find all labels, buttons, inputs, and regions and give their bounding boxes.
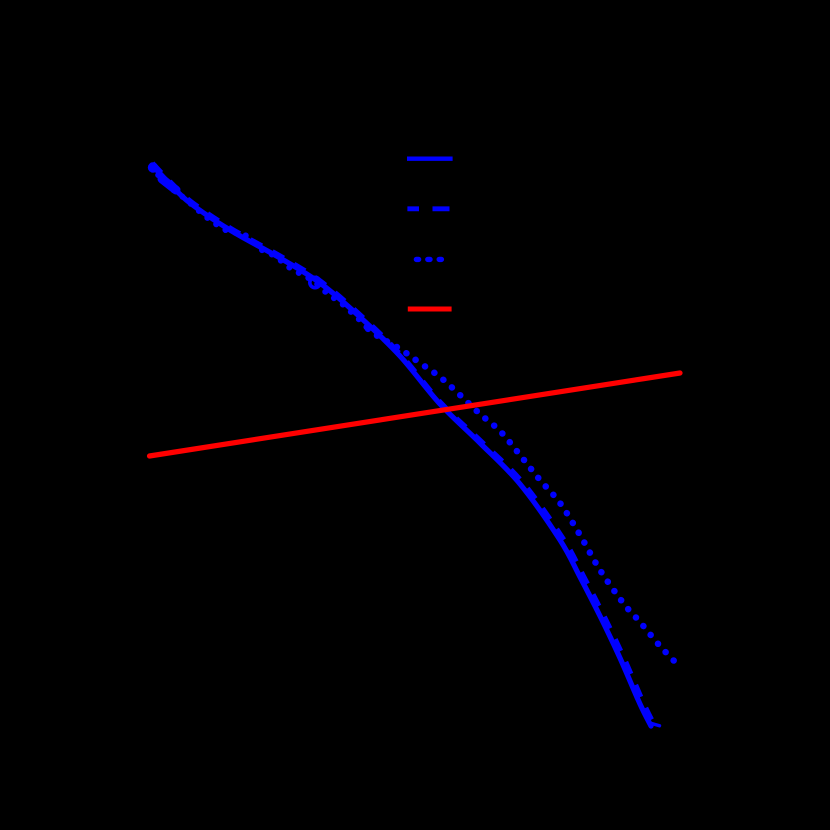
blue dotted curve (early part, wiggling around solid) [152, 166, 368, 329]
small loop of dotted curve [310, 277, 320, 287]
blue dotted curve (separated branch) [368, 329, 679, 666]
red straight line [150, 373, 681, 456]
legend: red solid sample [408, 307, 452, 312]
blue solid curve [152, 165, 651, 726]
thick overlap segment near start [162, 179, 176, 190]
legend: solid blue sample [407, 156, 453, 160]
legend: dotted blue sample [416, 257, 446, 262]
blue dashed curve [153, 163, 656, 726]
small tail of final dash of dashed curve [650, 723, 660, 726]
legend: dashed blue sample [407, 206, 449, 211]
start blob where all three blue curves begin [148, 162, 158, 172]
